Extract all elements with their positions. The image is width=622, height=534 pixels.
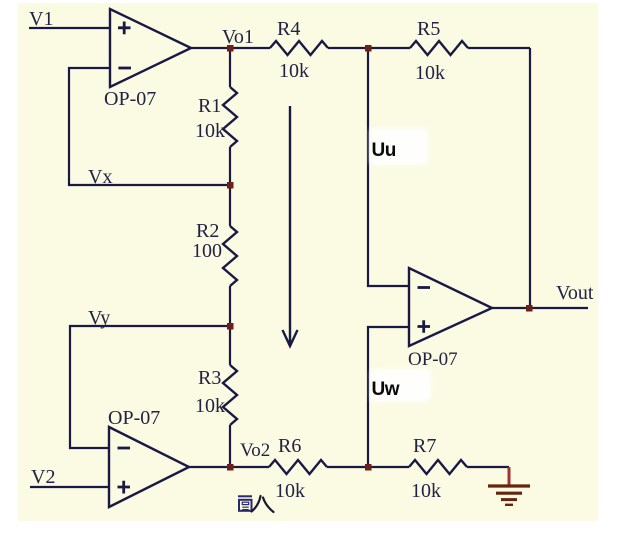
white patch behind Vw label [371, 369, 431, 402]
U3 plus input symbol [418, 320, 431, 333]
resistor R1 [223, 87, 237, 147]
U1 plus input symbol [118, 22, 131, 35]
resistor R3 [223, 365, 237, 425]
ground symbol [488, 467, 530, 505]
U2 minus input symbol [118, 447, 131, 450]
svg-text:R7: R7 [413, 435, 436, 457]
arrow current direction indicator [283, 106, 298, 346]
svg-text:V2: V2 [31, 466, 55, 488]
svg-text:R5: R5 [417, 18, 440, 40]
wire R5 to right rail [468, 47, 530, 49]
wire R6 to R7 [327, 466, 409, 468]
node Vout [526, 305, 533, 312]
resistor R6 [269, 460, 327, 474]
resistor R5 [410, 41, 468, 55]
svg-text:OP-07: OP-07 [408, 349, 458, 370]
caption 圖八 (Figure 8) glyph 八 [252, 496, 274, 512]
svg-text:R2: R2 [196, 220, 219, 242]
svg-text:10k: 10k [275, 480, 305, 502]
svg-text:R6: R6 [278, 435, 301, 457]
node Vo2 [227, 464, 234, 471]
svg-text:10k: 10k [415, 62, 445, 84]
svg-text:10k: 10k [195, 395, 225, 417]
caption 圖八 (Figure 8) glyph 圖 [238, 496, 252, 511]
svg-text:10k: 10k [279, 60, 309, 82]
svg-text:R3: R3 [198, 367, 221, 389]
svg-text:Vy: Vy [88, 307, 110, 329]
wire node Vu down to U3 inverting input [368, 48, 409, 286]
wire R3 to node Vo2 [229, 425, 231, 467]
node R6-R7 junction [365, 464, 372, 471]
node Vo1 [227, 45, 234, 52]
U1 minus input symbol [118, 67, 131, 70]
wire U2 output to R6 [189, 466, 269, 468]
wire Vy feedback to U2 inverting input [70, 326, 230, 448]
resistor R2 [223, 226, 237, 286]
wire Vo1 node down to R1 [229, 48, 231, 87]
node Vy [227, 323, 234, 330]
wire U1 feedback to node Vx [69, 68, 230, 185]
white patch behind Vu label [370, 128, 428, 165]
svg-text:10k: 10k [195, 120, 225, 142]
node R4-R5 junction [365, 45, 372, 52]
wire node Vw to U3 non-inverting input [368, 327, 409, 467]
U2 plus input symbol [118, 481, 131, 494]
svg-text:OP-07: OP-07 [108, 407, 160, 429]
svg-text:Vx: Vx [88, 166, 112, 188]
svg-text:Uu: Uu [372, 140, 396, 161]
svg-text:10k: 10k [411, 480, 441, 502]
resistor R7 [409, 460, 467, 474]
U3 minus input symbol [418, 286, 431, 289]
svg-text:R1: R1 [198, 95, 221, 117]
svg-text:Uw: Uw [372, 379, 400, 400]
op-amp U1 OP-07 (top left) [110, 9, 191, 87]
svg-text:R4: R4 [277, 18, 300, 40]
svg-text:Vout: Vout [556, 282, 594, 304]
svg-text:OP-07: OP-07 [104, 88, 156, 110]
wire R2 to node Vy [229, 286, 231, 365]
wire R1 to node Vx [229, 147, 231, 226]
wire R4 to R5 [328, 47, 410, 49]
wire V2 input [30, 486, 109, 488]
op-amp U3 OP-07 (right) [409, 268, 492, 346]
svg-text:Vo1: Vo1 [222, 26, 254, 48]
svg-text:Vo2: Vo2 [240, 440, 270, 461]
svg-text:100: 100 [192, 240, 222, 262]
wire V1 input [29, 27, 110, 29]
wire U1 output to R4 [191, 47, 270, 49]
wire right rail down to U3 output node [529, 48, 531, 308]
resistor R4 [270, 41, 328, 55]
wire U3 output Vout [492, 307, 588, 309]
svg-text:V1: V1 [29, 8, 53, 30]
op-amp U2 OP-07 (bottom left) [109, 427, 189, 507]
wire R7 to ground [467, 466, 509, 468]
node Vx [227, 182, 234, 189]
